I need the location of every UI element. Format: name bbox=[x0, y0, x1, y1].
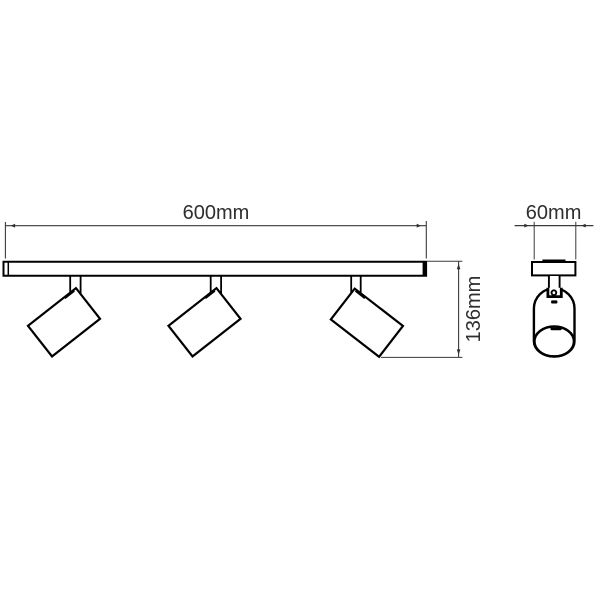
svg-text:600mm: 600mm bbox=[183, 202, 250, 224]
side view ceiling bracket bbox=[532, 262, 575, 275]
dimension 600mm extension line right bbox=[425, 221, 427, 259]
dimension 136mm extension line top bbox=[427, 260, 462, 262]
stem of spotlight head 2 bbox=[211, 276, 221, 296]
dimension 600mm line bbox=[5, 225, 426, 227]
dimension 60mm right arrow bbox=[581, 224, 586, 228]
svg-text:136mm: 136mm bbox=[463, 276, 485, 343]
stem of spotlight head 1 bbox=[70, 276, 80, 296]
hinge line of head 2 bbox=[205, 291, 215, 298]
dimension 136mm top arrow bbox=[457, 264, 461, 270]
side view stem (covers capsule arc) bbox=[550, 276, 559, 295]
spotlight head 2 (tilted cylinder, front view) bbox=[168, 288, 240, 356]
side view clevis bracket (U shape) bbox=[548, 288, 561, 297]
side view bracket top line bbox=[542, 259, 565, 261]
dimension 136mm line bbox=[458, 261, 460, 357]
side view pivot knob bbox=[552, 290, 557, 295]
spotlight head 3 (tilted cylinder, mirrored) bbox=[331, 289, 403, 357]
mounting bar (track) bbox=[4, 262, 427, 276]
side view tab on rim bbox=[550, 328, 561, 331]
dimension 600mm extension line left bbox=[4, 222, 6, 259]
bar right end cap (thick) bbox=[423, 261, 427, 276]
dimension 136mm bottom arrow bbox=[457, 349, 461, 355]
side view head body (capsule silhouette) bbox=[534, 288, 575, 356]
dimension 60mm extension line left bbox=[533, 222, 535, 260]
bar left end cap line bbox=[7, 262, 9, 275]
dimension 60mm extension line right bbox=[575, 222, 577, 260]
side view screw below bracket bbox=[551, 300, 557, 303]
stem of spotlight head 3 bbox=[351, 276, 361, 296]
spotlight head 1 (tilted cylinder, front view) bbox=[28, 288, 100, 356]
hinge line of head 3 bbox=[355, 291, 364, 298]
dimension 600mm right arrow bbox=[417, 224, 422, 228]
dimension 136mm extension line bottom bbox=[381, 356, 462, 358]
dimension 60mm line bbox=[515, 225, 594, 227]
svg-text:60mm: 60mm bbox=[526, 202, 582, 224]
dimension 60mm left arrow bbox=[524, 224, 529, 228]
hinge line of head 1 bbox=[65, 291, 75, 298]
dimension 600mm left arrow bbox=[11, 224, 16, 228]
side view lens rim (ellipse) bbox=[534, 327, 574, 357]
